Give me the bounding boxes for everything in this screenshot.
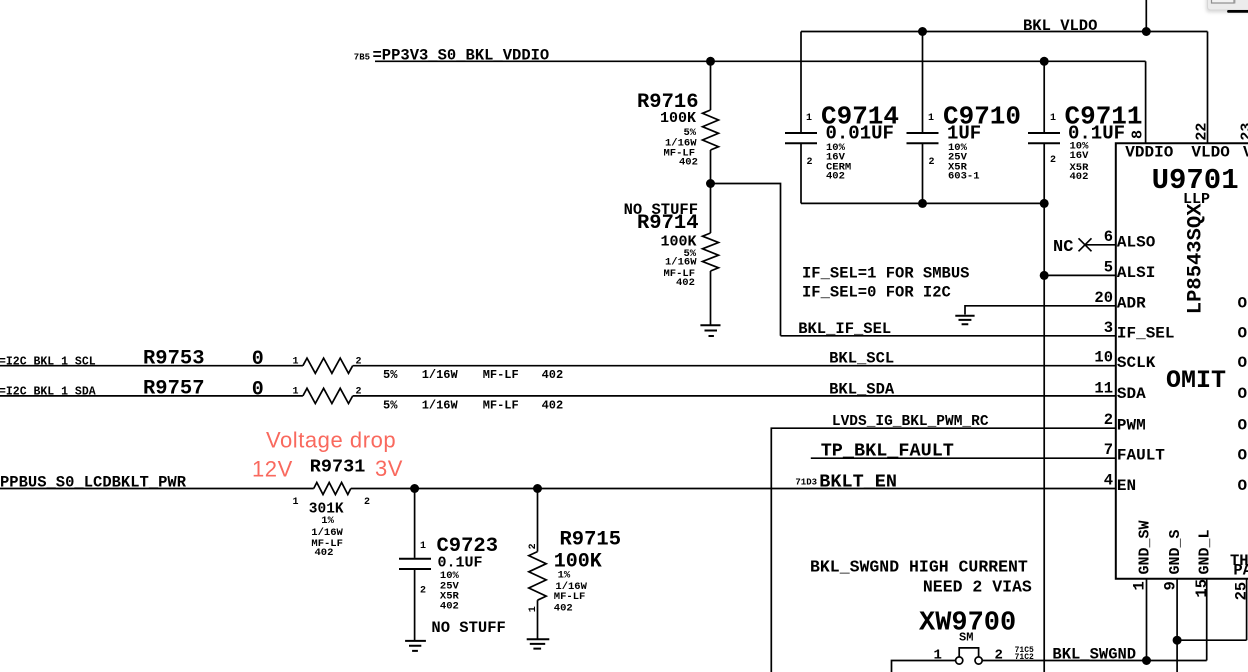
svg-text:GND_L: GND_L [1197,529,1214,574]
junction dot BKL_VLDO/C9710 [918,27,927,36]
svg-text:22: 22 [1194,123,1211,141]
svg-text:R9757: R9757 [143,377,205,400]
ground ADR [955,316,974,324]
resistor R9714 (NO STUFF) [710,184,712,325]
svg-text:2: 2 [1050,155,1056,166]
svg-text:ADR: ADR [1117,294,1146,312]
svg-text:402: 402 [676,277,695,289]
wire junction to IF_SEL [711,184,781,336]
svg-text:OMIT: OMIT [1166,366,1226,395]
wire pin 8 VDDIO drop [1145,61,1147,143]
svg-text:R9731: R9731 [310,456,366,477]
svg-text:2: 2 [420,586,426,597]
svg-text:0: 0 [252,348,264,371]
svg-text:0: 0 [252,378,264,401]
svg-text:R9753: R9753 [143,347,205,370]
svg-text:8: 8 [1130,130,1147,139]
svg-text:3V: 3V [375,456,403,481]
svg-text:1: 1 [293,356,299,367]
svg-text:12V: 12V [252,457,293,482]
resistor R9716 [710,61,712,183]
svg-text:6: 6 [1104,228,1113,246]
svg-text:2: 2 [807,157,813,168]
svg-text:1: 1 [293,386,299,397]
wire BKL_VLDO from top [1145,0,1147,32]
chip U9701 outline [1116,143,1248,579]
svg-text:3: 3 [1104,319,1113,337]
node BKL_VLDO rail [801,31,1208,33]
svg-text:15: 15 [1193,579,1211,598]
svg-text:O: O [1238,385,1248,403]
svg-text:FAULT: FAULT [1117,447,1165,465]
svg-text:BKL_SWGND HIGH CURRENT: BKL_SWGND HIGH CURRENT [810,558,1028,577]
svg-text:V: V [1243,143,1248,161]
svg-text:5%: 5% [383,399,398,413]
chip U9701 part number LP8543SQX [1185,203,1208,314]
svg-text:MF-LF: MF-LF [554,591,586,603]
svg-text:NEED 2 VIAS: NEED 2 VIAS [923,578,1032,597]
junction dot GND_S [1173,636,1182,645]
wire XW9700 pin 2 to BKL_SWGND [982,660,1206,662]
svg-text:GND_S: GND_S [1167,529,1184,574]
svg-text:SDA: SDA [1117,385,1146,403]
pin 22 number [1194,123,1211,141]
no-connect NC pin 6 [1085,244,1116,246]
svg-text:SCLK: SCLK [1117,354,1156,372]
svg-text:25: 25 [1233,582,1248,601]
svg-text:R9714: R9714 [637,212,699,235]
svg-text:1: 1 [293,497,299,508]
UI scrollbar widget top right [1206,0,1248,13]
wire BKL_SDA to pin 11 [353,395,1116,397]
svg-text:2: 2 [929,157,935,168]
svg-text:1/16W: 1/16W [422,399,459,413]
wire pin 22 VLDO drop [1207,32,1209,144]
wire BKLT_EN to pin 4 [351,488,1116,490]
pin GND_L [1197,529,1214,574]
svg-text:100K: 100K [660,110,696,127]
ground R9714 [700,325,720,336]
wire XW9700 pin 1 [892,661,956,672]
svg-text:O: O [1238,354,1248,372]
svg-text:MF-LF: MF-LF [483,368,519,382]
svg-text:71C2: 71C2 [1015,653,1034,662]
svg-text:O: O [1238,294,1248,312]
wire capacitor bottom rail [801,202,1044,204]
svg-text:20: 20 [1094,289,1113,307]
junction dot R9715 tap [533,484,542,493]
svg-text:1%: 1% [321,515,334,527]
svg-text:MF-LF: MF-LF [483,399,519,413]
svg-text:IF_SEL=0 FOR I2C: IF_SEL=0 FOR I2C [802,283,951,301]
svg-text:BKL_SCL: BKL_SCL [829,350,894,368]
junction dot BKL_VLDO/pin22 [1142,27,1151,36]
svg-text:ALSO: ALSO [1117,233,1156,251]
junction dot R9716/R9714/IF_SEL [706,179,715,188]
junction dot rail/C9711 [1040,199,1049,208]
wire FAULT pin 7 [811,457,1116,459]
svg-text:402: 402 [542,368,564,382]
svg-text:7: 7 [1104,441,1113,459]
svg-text:LP8543SQX: LP8543SQX [1185,203,1208,314]
ground R9715 [527,639,550,648]
svg-text:71D3: 71D3 [795,477,817,487]
pin 8 number [1130,130,1147,139]
wire GND_S to pad [1177,639,1247,641]
svg-text:VLDO: VLDO [1191,143,1230,161]
wire ADR pin 20 [965,306,1116,315]
svg-text:NC: NC [1053,238,1073,257]
wire BKL_SWGND long vertical [1043,203,1045,672]
svg-text:402: 402 [315,547,334,559]
wire BKL_SCL to pin 10 [353,365,1116,367]
svg-text:603-1: 603-1 [948,171,980,183]
wire ALSI pin 5 [1044,274,1116,276]
junction dot rail/C9710 [918,199,927,208]
svg-text:402: 402 [440,600,459,612]
svg-text:23: 23 [1239,123,1248,141]
svg-text:1: 1 [1050,113,1056,124]
wire PWM pin 2 [771,428,1116,672]
svg-text:1/16W: 1/16W [665,257,697,269]
svg-text:1: 1 [928,113,934,124]
pin 23 number [1239,123,1248,141]
svg-text:R9715: R9715 [560,529,622,552]
svg-text:NO STUFF: NO STUFF [431,619,505,637]
svg-text:O: O [1238,447,1248,465]
resistor R9715 [537,489,539,552]
svg-text:O: O [1238,477,1248,495]
svg-text:10: 10 [1094,349,1113,367]
svg-text:PA: PA [1233,562,1248,580]
svg-text:402: 402 [554,603,573,615]
wire IF_SEL pin 3 [781,335,1116,337]
svg-text:BKL_SDA: BKL_SDA [829,380,895,398]
svg-text:GND_SW: GND_SW [1136,520,1153,574]
svg-text:402: 402 [679,157,698,169]
junction dot PP3V3/R9716 [706,57,715,66]
svg-text:ALSI: ALSI [1117,264,1155,282]
svg-text:2: 2 [364,497,370,508]
wire PPBUS left [0,488,314,490]
svg-text:1: 1 [806,113,812,124]
capacitor C9723 (NO STUFF) [414,489,416,558]
pin GND_S [1167,529,1184,574]
svg-text:IF_SEL=1 FOR SMBUS: IF_SEL=1 FOR SMBUS [802,265,969,283]
svg-text:4: 4 [1104,472,1113,490]
junction dot GND_SW on BKL_SWGND [1142,656,1151,665]
wire SCL left [0,365,303,367]
junction dot PP3V3/C9711 [1040,57,1049,66]
svg-text:1/16W: 1/16W [422,368,459,382]
svg-text:O: O [1238,324,1248,342]
svg-text:Voltage drop: Voltage drop [266,428,396,453]
svg-text:7B5: 7B5 [354,53,370,63]
svg-text:16V: 16V [1070,150,1090,162]
ground C9723 [405,641,426,651]
svg-text:402: 402 [542,399,564,413]
wire PP3V3_S0_BKL_VDDIO rail [375,60,1146,62]
svg-text:1%: 1% [558,570,571,582]
svg-text:IF_SEL: IF_SEL [1117,324,1175,342]
svg-text:5: 5 [1104,258,1113,276]
junction dot C9723 tap [410,484,419,493]
svg-text:0.1UF: 0.1UF [438,555,483,572]
svg-text:402: 402 [1070,171,1089,183]
svg-text:5%: 5% [383,368,398,382]
svg-text:O: O [1238,417,1248,435]
svg-text:VDDIO: VDDIO [1125,143,1173,161]
svg-text:2: 2 [1104,411,1113,429]
capacitor C9710 [922,32,924,133]
svg-text:BKLT_EN: BKLT_EN [819,472,897,493]
svg-text:1: 1 [528,606,539,612]
capacitor C9714 [800,32,802,133]
pin GND_SW [1136,520,1153,574]
svg-text:BKL_SWGND: BKL_SWGND [1052,646,1136,664]
junction dot ALSI tap [1040,271,1049,280]
svg-text:BKL_VLDO: BKL_VLDO [1023,17,1097,35]
svg-text:EN: EN [1117,477,1136,495]
wire SDA left [0,395,303,397]
svg-text:402: 402 [826,171,845,183]
svg-text:SM: SM [959,631,973,645]
svg-text:11: 11 [1094,379,1113,397]
svg-text:PWM: PWM [1117,417,1146,435]
svg-text:2: 2 [528,543,539,549]
svg-text:1: 1 [420,541,426,552]
capacitor C9711 [1043,61,1045,132]
